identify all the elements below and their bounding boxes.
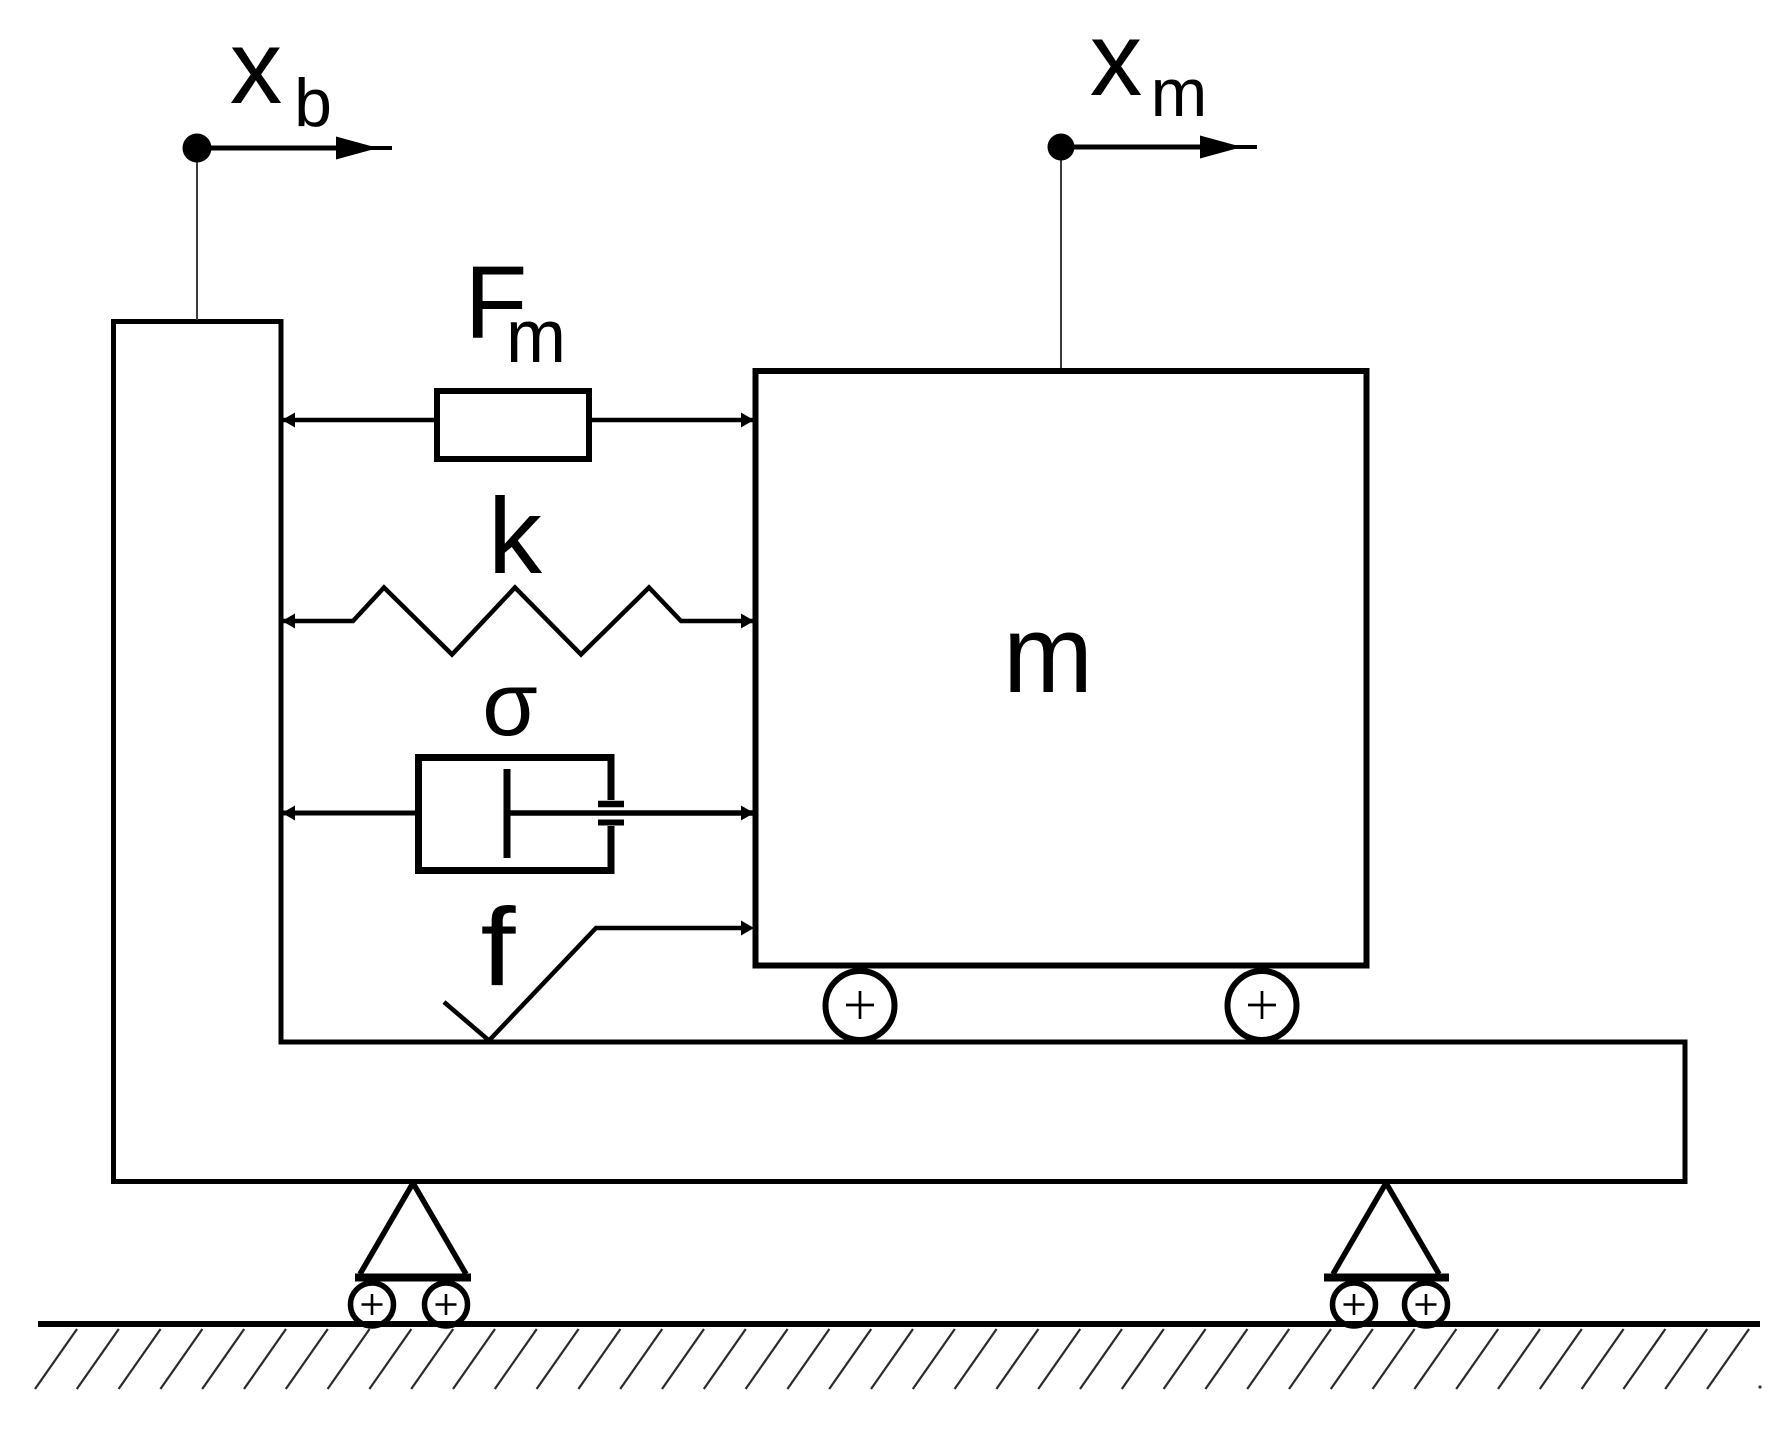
ground hatching — [35, 1329, 1749, 1389]
connector arrow at mass (friction) — [741, 921, 754, 936]
damper gland ticks — [598, 801, 624, 808]
roller under mass (left) — [826, 971, 895, 1040]
label Fm — [465, 245, 566, 378]
connector arrow at mass (Fm wire) — [741, 413, 754, 428]
x_m leader line — [1060, 160, 1062, 368]
mass m block — [756, 371, 1367, 966]
spring k — [281, 588, 755, 655]
svg-text:f: f — [481, 886, 517, 1009]
base frame (L-shaped wall + platform) — [114, 322, 1686, 1182]
svg-text:σ: σ — [482, 655, 538, 755]
connector arrow at mass (damper rod) — [741, 806, 754, 821]
svg-text:k: k — [488, 475, 543, 596]
support triangle (left) — [351, 1183, 472, 1326]
actuator Fm box — [437, 391, 589, 459]
x_b reference dot — [183, 134, 212, 163]
x_m arrow — [1061, 136, 1257, 159]
connector arrow at wall (spring) — [282, 614, 295, 629]
roller under mass (right) — [1228, 971, 1297, 1040]
svg-text:m: m — [1151, 55, 1208, 131]
svg-text:x: x — [230, 9, 283, 126]
damper piston plate — [504, 769, 511, 858]
connector arrow at wall (damper) — [282, 806, 295, 821]
wire wall to Fm — [281, 418, 437, 423]
svg-text:b: b — [294, 65, 332, 141]
label x_b — [230, 9, 332, 141]
x_m reference dot — [1048, 134, 1075, 161]
support triangle (right) — [1324, 1183, 1449, 1326]
svg-text:x: x — [1090, 1, 1143, 118]
wire wall to damper — [281, 811, 418, 816]
wire Fm to mass — [589, 418, 755, 423]
label x_m — [1090, 1, 1208, 131]
ground line — [38, 1321, 1760, 1327]
svg-text:m: m — [1003, 593, 1093, 716]
clipped hatch fragment (bottom-right speck) — [1758, 1385, 1761, 1388]
x_b arrow — [197, 137, 392, 160]
connector arrow at mass (spring) — [741, 614, 754, 629]
connector arrow at wall (Fm wire) — [282, 413, 295, 428]
damper piston rod to mass — [507, 810, 755, 816]
friction f symbol — [444, 928, 741, 1041]
x_b leader line — [196, 160, 198, 320]
damper sigma cylinder — [419, 758, 612, 871]
svg-text:m: m — [506, 294, 566, 378]
